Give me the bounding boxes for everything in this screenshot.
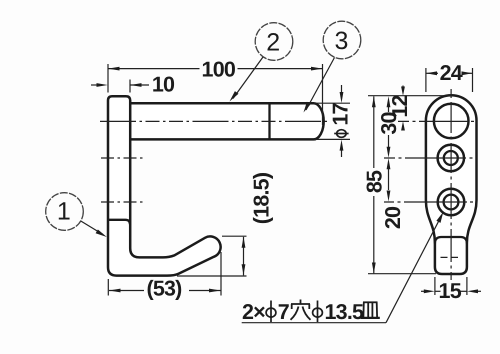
rod sleeve feature line [268,103,270,139]
bottom hole centerline (side view) [101,201,146,203]
dimension 85 [363,96,387,273]
dimension 12 [388,86,412,131]
plate and hook body (side view) [108,96,221,275]
dimension (18.5) [177,172,273,276]
hook piece step line [109,220,130,224]
svg-text:13.5: 13.5 [325,300,364,324]
dimension phi17 [314,85,353,157]
rod centerline [100,120,330,122]
middle countersunk hole [438,145,464,171]
svg-text:17: 17 [329,103,353,126]
svg-text:100: 100 [202,58,236,82]
bottom edge extension line [368,273,436,275]
svg-text:15: 15 [439,279,462,303]
svg-text:20: 20 [381,206,405,229]
svg-text:85: 85 [363,170,387,193]
svg-text:(53): (53) [146,277,182,301]
dimension 10 [91,73,175,97]
dimension 30 [377,96,401,158]
rod end crosshair [398,120,474,122]
dimension (53) [108,252,221,301]
svg-text:10: 10 [152,73,175,97]
dimension 24 [426,61,473,92]
mounting plate outline (front view) [426,95,477,274]
top edge extension line [368,95,451,97]
note leader line [386,212,443,323]
bottom hole crosshair [384,201,473,203]
balloon callout 1 [46,193,107,237]
bottom countersunk hole [438,189,465,216]
dimension 15 [421,277,481,303]
dimension 20 [381,158,405,229]
middle hole centerline (side view) [101,157,145,159]
note text 2x phi7 hole phi13.5 countersink [242,300,380,325]
rod (hook arm, side view) [130,103,324,139]
svg-text:24: 24 [440,61,463,85]
svg-text:12: 12 [388,95,412,118]
balloon callout 3 [304,21,361,112]
tongue centerline dashes [441,256,462,258]
svg-text:1: 1 [57,198,71,226]
rod end circle (front view) [434,104,469,139]
dimension 100 [108,58,323,126]
svg-text:2: 2 [266,29,280,57]
svg-text:7: 7 [278,300,290,324]
note underline [242,322,386,324]
bottom tongue shoulder line [435,237,467,244]
vertical centerline (front view) [450,89,452,280]
balloon callout 2 [230,23,293,102]
middle hole crosshair [384,157,473,159]
svg-text:(18.5): (18.5) [249,172,273,224]
svg-text:3: 3 [335,27,349,55]
svg-text:2×: 2× [242,300,265,324]
